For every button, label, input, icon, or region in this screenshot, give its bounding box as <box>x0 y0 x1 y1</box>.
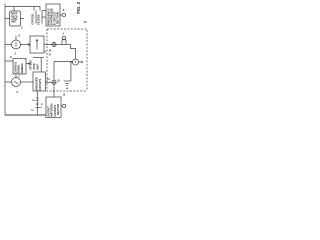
label inside U5 <box>36 77 42 91</box>
label 5 <box>63 33 65 36</box>
component C1 above U5 <box>33 57 44 59</box>
component X1 vertical stack A <box>33 7 35 11</box>
meter M1 <box>73 59 79 65</box>
label inside U3 <box>36 40 38 50</box>
svg-text:GENERA: GENERA <box>21 63 24 74</box>
block U2 top synthesizer <box>46 4 60 26</box>
terminal T3 <box>62 104 65 107</box>
wire B1 to U3 with arrowhead <box>21 44 31 46</box>
label 2 <box>21 26 23 30</box>
wire U6 output <box>61 105 62 107</box>
label 9 <box>17 90 19 94</box>
block U4 control <box>13 59 26 75</box>
component X2 vertical stack B <box>39 7 41 11</box>
terminal T1 <box>62 13 65 16</box>
block U1 top-left <box>10 11 21 26</box>
terminal T2 <box>62 36 65 39</box>
label 8 <box>10 55 12 59</box>
label 12 <box>47 78 50 81</box>
junction J1 <box>52 42 56 46</box>
wire top horizontal bus <box>5 6 40 8</box>
wire U1 right stub <box>21 18 25 20</box>
label inside U4 <box>14 61 23 73</box>
block U3 modulator <box>30 36 44 53</box>
label 10 <box>84 20 87 24</box>
wire U1 top tick <box>13 7 15 12</box>
label 7 <box>18 75 20 79</box>
wire node row <box>54 61 73 63</box>
label 13 <box>63 94 66 97</box>
wire stacks to U2 upper <box>42 10 46 12</box>
wire bottom horizontal bus <box>5 114 46 116</box>
wire bus to U4 <box>5 60 13 62</box>
ground <box>64 80 71 82</box>
component chain D1 <box>36 91 38 115</box>
junction J2 <box>52 80 56 84</box>
svg-text:CIRCUITS: CIRCUITS <box>39 78 42 90</box>
wire U5 output <box>46 81 52 83</box>
dashed enclosure <box>47 29 87 91</box>
junction dot <box>70 61 72 63</box>
source circle B1 <box>12 40 21 49</box>
svg-text:FILTERS: FILTERS <box>38 14 41 25</box>
label below B1 <box>15 53 17 56</box>
svg-text:UNIT: UNIT <box>38 64 40 70</box>
wire riser bump <box>62 40 66 45</box>
svg-text:UNIT: UNIT <box>11 21 17 24</box>
label 3 <box>63 8 65 12</box>
svg-text:ATOR: ATOR <box>33 63 36 70</box>
svg-text:SECTION: SECTION <box>57 104 60 115</box>
wire U3 output <box>44 44 52 46</box>
wire bus to U1 left <box>5 18 10 20</box>
block U6 output stage <box>46 97 61 118</box>
label inside U1 <box>11 13 19 24</box>
wire M1 right <box>79 61 82 63</box>
svg-text:ATTENU: ATTENU <box>30 60 33 69</box>
wire B1 top stub <box>15 36 17 41</box>
wire step down <box>71 45 76 60</box>
label 15 <box>57 80 60 83</box>
wire node vertical to J2 <box>53 62 55 81</box>
wire B2 top stub <box>15 75 17 78</box>
wire J1 right <box>56 44 70 46</box>
wire left vertical bus <box>4 4 6 116</box>
wire chain right stub <box>39 106 42 108</box>
source circle B2 <box>12 78 21 87</box>
wire B2 to U5 <box>21 81 34 83</box>
label 6 <box>19 34 21 38</box>
wire U2 output <box>60 14 62 16</box>
wire bus to B1 <box>5 44 12 46</box>
label inside U2 <box>46 8 59 25</box>
svg-text:SECTION: SECTION <box>56 12 60 24</box>
wire J2 down to U6 <box>53 84 55 97</box>
label inside U6 <box>48 103 60 116</box>
wire stacks to U2 lower <box>42 16 46 18</box>
wire M1 branch down <box>70 62 72 81</box>
label 18 <box>31 100 44 112</box>
label 4 <box>45 50 47 54</box>
svg-text:FIG. 2: FIG. 2 <box>76 1 81 13</box>
wire bus to B2 <box>5 81 12 83</box>
svg-text:CRYSTAL: CRYSTAL <box>32 13 35 25</box>
label 16 <box>49 50 52 57</box>
block U5 amplifier <box>33 72 46 91</box>
label FIG.2 <box>76 1 81 13</box>
wire U4 to C1 with arrowhead <box>26 63 30 65</box>
node mark <box>81 61 83 63</box>
